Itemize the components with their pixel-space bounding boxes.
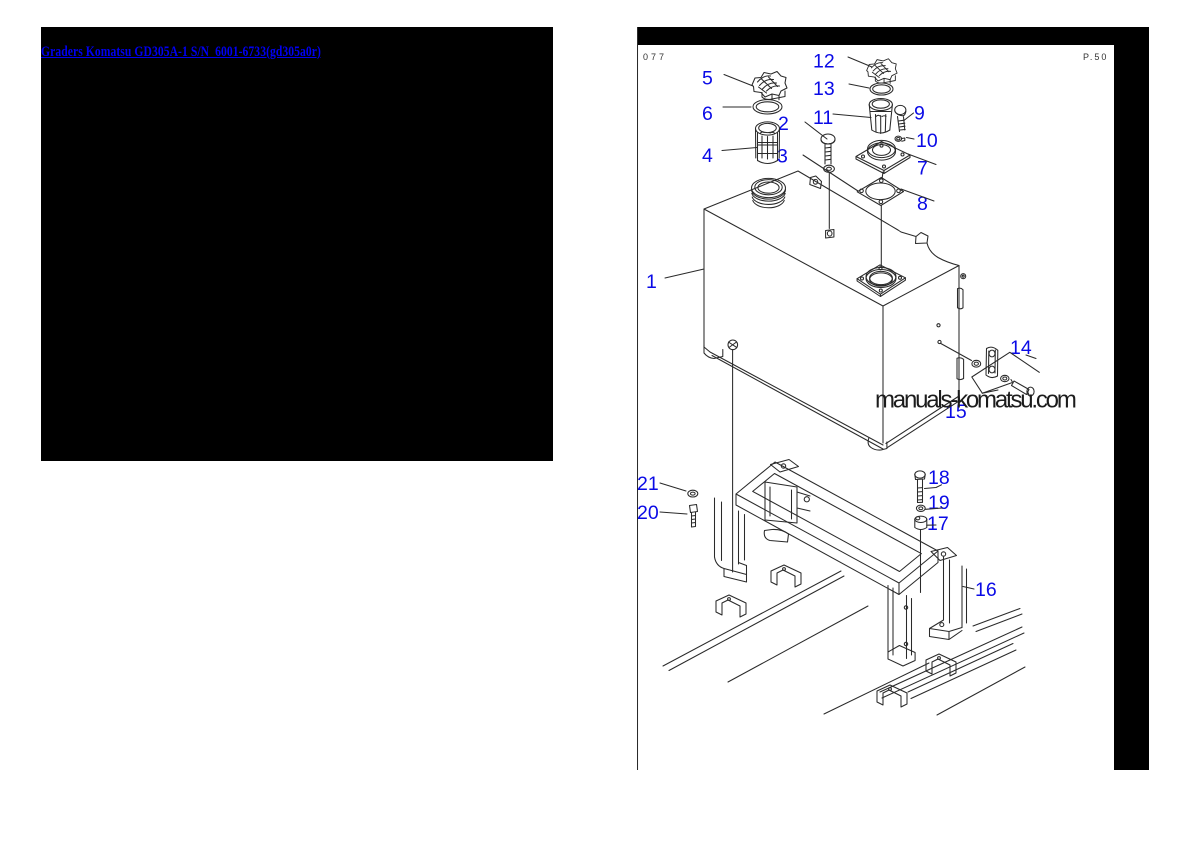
svg-text:6: 6 (702, 103, 713, 125)
svg-text:3: 3 (777, 146, 788, 168)
svg-text:5: 5 (702, 68, 713, 90)
svg-text:P.50: P.50 (1083, 52, 1108, 62)
svg-text:11: 11 (813, 107, 833, 129)
svg-text:manuals-komatsu.com: manuals-komatsu.com (875, 387, 1076, 414)
svg-text:17: 17 (927, 513, 949, 535)
svg-text:12: 12 (813, 51, 835, 73)
svg-text:077: 077 (643, 52, 667, 62)
svg-text:9: 9 (914, 103, 925, 125)
svg-text:1: 1 (646, 271, 657, 293)
svg-text:10: 10 (916, 130, 938, 152)
svg-text:4: 4 (702, 145, 713, 167)
svg-text:13: 13 (813, 78, 835, 100)
svg-text:21: 21 (637, 473, 659, 495)
svg-text:20: 20 (637, 502, 659, 524)
svg-text:19: 19 (928, 492, 950, 514)
svg-text:16: 16 (975, 579, 997, 601)
